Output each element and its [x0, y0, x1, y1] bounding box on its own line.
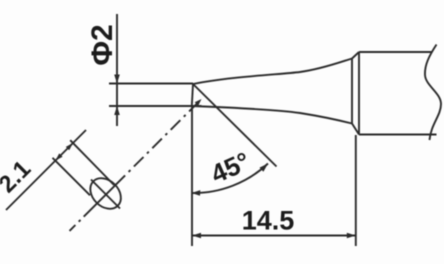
angle arc (45-degree dimension arc) [192, 164, 269, 194]
dimension line D1 (Phi-2 vertical dimension line) [116, 14, 118, 126]
arrow A9 (view-direction arrow at apex, pointing up-right) [195, 99, 202, 106]
arrow A5 (arc left end, pointing left) [192, 190, 201, 196]
break line (S-curve at right end of shaft) [425, 45, 441, 141]
cross line (perpendicular axis through ellipse) [91, 180, 120, 209]
arrow A4 (14.5 right, pointing right) [347, 233, 356, 239]
svg-text:45°: 45° [206, 146, 254, 189]
centerline (dash-dot axis of bevel barrel) [70, 102, 200, 231]
svg-text:2.1: 2.1 [0, 156, 36, 199]
extension line E6 (lower barrel silhouette for 2.1 dim) [53, 158, 91, 196]
extension line E1 (top of bevel barrel, y=83.5) [109, 83, 193, 85]
tip outline (bevel face edge, horn taper, collar, shaft) [192, 52, 437, 135]
extension line E5 (upper barrel silhouette for 2.1 dim) [70, 140, 114, 185]
arrow A6 (arc right end, pointing up-right) [260, 164, 269, 172]
extension line E4 (right side of 14.5 dim) [355, 135, 357, 246]
svg-text:14.5: 14.5 [242, 206, 295, 236]
arrow A2 (Phi-2 bottom, pointing up) [114, 106, 120, 115]
arrow A3 (14.5 left, pointing left) [192, 233, 201, 239]
bevel plane line (45-degree diagonal from corner) [193, 84, 277, 167]
extension line E2 (bottom of bevel barrel / apex, y=106) [109, 105, 202, 107]
dimension line D2 (14.5 horizontal) [192, 235, 356, 237]
arrow A1 (Phi-2 top, pointing down) [114, 75, 120, 84]
dimension line D3 (2.1 diagonal) [6, 130, 86, 210]
arrow A8 (2.1 lower crossing, pointing down-left) [55, 153, 62, 160]
arrow A7 (2.1 upper crossing, pointing up-right) [66, 143, 73, 150]
ellipse (bevel face detail view) [84, 172, 127, 215]
svg-text:Φ2: Φ2 [86, 24, 119, 65]
extension line E3 (vertical from apex down to 14.5 dim) [191, 106, 193, 246]
